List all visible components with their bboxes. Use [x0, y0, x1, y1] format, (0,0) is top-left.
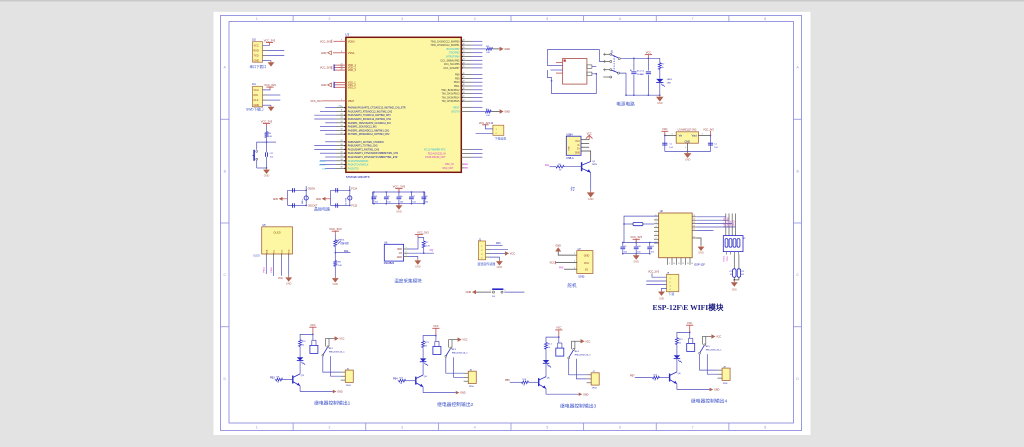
svg-text:RXD: RXD: [254, 49, 259, 52]
node reg in: [664, 135, 665, 136]
wire reset switch bottom: [256, 160, 258, 168]
connector J1 DHT11: [478, 241, 485, 260]
wire ds vdd: [404, 238, 418, 250]
svg-text:14: 14: [341, 121, 343, 123]
power flag VCC relay 2: [432, 325, 439, 335]
wire oled vcc: [281, 254, 283, 276]
svg-text:VCC_3V3: VCC_3V3: [264, 38, 276, 42]
svg-text:3: 3: [656, 222, 657, 224]
transistor Q5 NPN: [539, 377, 551, 389]
svg-text:J10: J10: [252, 39, 257, 42]
svg-text:6: 6: [656, 234, 657, 236]
wire relay left branch: [300, 334, 313, 339]
svg-text:GND: GND: [633, 260, 639, 263]
wire relay left branch: [546, 337, 559, 342]
svg-text:继电器控制输出2: 继电器控制输出2: [437, 401, 474, 408]
svg-text:1: 1: [574, 253, 575, 255]
node reg gnd: [687, 151, 688, 152]
svg-text:SWDIO: SWDIO: [319, 161, 326, 163]
svg-text:RG1: RG1: [340, 239, 345, 241]
svg-text:15: 15: [693, 219, 695, 221]
power port GND VSS: [321, 83, 332, 87]
svg-text:GND: GND: [396, 210, 402, 213]
wire reset cap top: [266, 142, 268, 152]
wire relay r to led: [299, 347, 301, 358]
svg-text:36: 36: [341, 167, 343, 169]
mcu right pins PC13-PC15 wires: [461, 150, 482, 158]
relay RL3 coil: [433, 347, 441, 355]
ground lamp: [587, 191, 595, 201]
mcu pin names PA0-PA7: [339, 105, 406, 137]
mcu U3 STM32F103C8T6 body: [346, 37, 461, 172]
power flag VCC relay 4: [686, 322, 693, 332]
node ds io: [423, 253, 424, 254]
esp right pin stubs: [692, 215, 696, 238]
svg-text:GND: GND: [264, 175, 270, 178]
wire relay r to led: [676, 345, 678, 356]
capacitors C9 C10 C11: [620, 242, 658, 255]
wire relay left branch: [677, 332, 690, 337]
svg-text:3: 3: [574, 267, 575, 269]
svg-text:PB8: PB8: [455, 75, 460, 77]
svg-text:51: 51: [463, 96, 465, 98]
wire esp rxd: [696, 219, 729, 221]
node rail5: [625, 95, 626, 96]
ground reset: [263, 168, 270, 178]
ground dht: [496, 260, 503, 270]
usb power connector body: [563, 59, 587, 85]
node reg out: [710, 135, 711, 136]
wire J10 VCC: [263, 44, 270, 46]
ground relay 1: [333, 390, 343, 394]
power port VCC_3V3 VDDA: [320, 40, 332, 44]
wire contact to connector: [700, 354, 718, 370]
svg-text:LED: LED: [667, 82, 672, 84]
svg-text:GND: GND: [555, 244, 561, 247]
wire relay coil stem: [558, 337, 560, 343]
power vcc relay contact: [335, 336, 345, 340]
power flag VCC_3V3 capbank: [393, 184, 406, 192]
svg-text:灯: 灯: [571, 186, 576, 193]
svg-text:49: 49: [463, 88, 465, 90]
svg-text:VCC: VCC: [646, 51, 651, 54]
wire esp en: [646, 223, 655, 225]
relay contacts: [445, 340, 458, 358]
mcu left signal pins PA0-PA7 wires: [314, 106, 346, 135]
svg-text:PA15/JTDI: PA15/JTDI: [348, 167, 359, 170]
pins ds numbers: [406, 247, 407, 257]
wire servo io: [564, 268, 577, 270]
svg-text:SG90: SG90: [578, 276, 585, 278]
pin OSC_IN wire: [461, 163, 468, 165]
svg-text:PC15: PC15: [351, 206, 357, 208]
svg-text:PB10: PB10: [454, 82, 460, 84]
svg-text:PA14/JTCK/SWCLK: PA14/JTCK/SWCLK: [348, 164, 369, 167]
wire esp io0: [696, 223, 732, 225]
svg-text:7: 7: [692, 426, 694, 430]
svg-text:11: 11: [341, 110, 343, 112]
svg-text:VCC: VCC: [556, 327, 561, 330]
svg-text:46: 46: [463, 77, 465, 79]
svg-text:VCC_3V3: VCC_3V3: [320, 67, 332, 70]
wire J10 RXD: [263, 49, 285, 51]
svg-text:35: 35: [341, 163, 343, 165]
wire usb loop top: [547, 50, 604, 66]
wire power top rail: [620, 57, 660, 59]
svg-text:1: 1: [685, 147, 686, 149]
svg-text:TXD2: TXD2: [727, 256, 729, 262]
node relay vcc: [689, 332, 690, 333]
row dividers and letters: [221, 66, 802, 381]
svg-text:GND: GND: [685, 140, 691, 143]
svg-text:19: 19: [463, 43, 465, 45]
wire j1 pin3: [486, 252, 505, 254]
svg-text:10K: 10K: [338, 265, 342, 267]
mcu left signal pins PA8-PA15 wires: [314, 140, 346, 169]
wire emitter down: [422, 387, 424, 393]
power port GND VSSA: [321, 51, 332, 55]
pins servo numbers: [574, 253, 575, 269]
led D2: [420, 358, 427, 361]
svg-text:2: 2: [406, 251, 407, 253]
pins VDD names: [348, 64, 357, 72]
svg-text:NPN: NPN: [592, 164, 597, 166]
node rail1: [633, 58, 634, 59]
svg-text:PA4: PA4: [344, 250, 349, 253]
svg-text:HRD-05VDC-SL-C: HRD-05VDC-SL-C: [575, 354, 591, 356]
wire ds vcc rail: [418, 238, 424, 241]
svg-text:PC15-OSC32_OUT: PC15-OSC32_OUT: [425, 157, 446, 159]
svg-text:PA8/USART1_CK/TIM1_CH1/MCO: PA8/USART1_CK/TIM1_CH1/MCO: [348, 141, 384, 144]
svg-text:16: 16: [693, 215, 695, 217]
svg-text:PA9/USART1_TX/TIM1_CH2: PA9/USART1_TX/TIM1_CH2: [348, 145, 379, 148]
wire contact2 to connector: [454, 357, 464, 377]
svg-text:29: 29: [341, 140, 343, 142]
svg-text:47: 47: [463, 80, 465, 82]
wire relay coil stub1: [557, 343, 559, 348]
resistor R12 1k: [299, 340, 307, 347]
svg-text:晶振电路: 晶振电路: [314, 206, 330, 212]
svg-text:NRST: NRST: [453, 107, 460, 109]
wire servo vcc: [556, 262, 577, 264]
svg-text:VCC_3V3: VCC_3V3: [417, 230, 429, 234]
svg-text:9: 9: [669, 263, 670, 265]
svg-text:VCC_3V3: VCC_3V3: [703, 129, 714, 132]
svg-text:VCC: VCC: [587, 133, 592, 135]
svg-text:4: 4: [670, 289, 671, 291]
svg-text:PA3: PA3: [496, 242, 501, 245]
inductor FB1: [624, 222, 646, 225]
wire esp io2: [696, 226, 735, 228]
svg-text:下载设置: 下载设置: [495, 136, 507, 141]
svg-text:GND: GND: [583, 393, 589, 396]
wire emitter down: [299, 386, 301, 392]
svg-text:20: 20: [463, 47, 465, 49]
pins VDD_1 VDD_2 VDD_3 wires: [334, 64, 346, 70]
sheet page: [214, 12, 811, 435]
svg-text:TIM1_BKIN/PB12: TIM1_BKIN/PB12: [441, 90, 460, 92]
usb left pin 1: [556, 62, 563, 64]
svg-text:5: 5: [546, 426, 548, 430]
svg-text:SDA: SDA: [265, 249, 268, 254]
svg-text:8: 8: [341, 51, 342, 53]
wire button left: [476, 291, 491, 293]
wire relay coil stub1: [434, 341, 436, 346]
svg-text:继电器控制输出3: 继电器控制输出3: [560, 402, 597, 409]
switch S1 power switch: [603, 52, 620, 78]
svg-text:OLED: OLED: [253, 255, 260, 258]
pins VSS_1 VSS_2 VSS_3 wires: [334, 82, 346, 88]
resistor R14 1k: [545, 342, 553, 349]
node reset bottom: [266, 167, 267, 168]
svg-text:12: 12: [682, 263, 684, 265]
wire relay coil stem: [689, 332, 691, 338]
ground capbank: [396, 204, 403, 214]
connector USB4 body: [566, 136, 581, 155]
svg-text:GPIO0: GPIO0: [731, 219, 733, 226]
svg-text:BOOT1/PB2: BOOT1/PB2: [447, 49, 460, 51]
svg-text:4.7K: 4.7K: [426, 245, 431, 247]
wire relay coil stem: [312, 334, 314, 340]
wire photo bottom: [334, 266, 336, 276]
svg-text:ESP-12F: ESP-12F: [694, 263, 705, 267]
wire J11 VCC: [263, 89, 271, 91]
svg-text:SWD下载口: SWD下载口: [246, 107, 264, 112]
power flag VCC_3V3 J10: [264, 38, 276, 45]
wire ds io: [404, 252, 434, 254]
power port VCC_3V3 VDD: [320, 66, 332, 70]
usb right pin pads: [587, 65, 592, 76]
svg-text:PA12/USART1_RTS/CANTX/USBDP/TI: PA12/USART1_RTS/CANTX/USBDP/TIM1_ETR: [348, 156, 398, 159]
svg-text:11: 11: [678, 263, 680, 265]
svg-text:I2C1_SCL/PB6: I2C1_SCL/PB6: [444, 64, 460, 66]
node reset: [266, 141, 267, 142]
svg-text:GND: GND: [333, 283, 339, 286]
relay contacts: [568, 341, 581, 359]
node power gnd: [659, 95, 660, 96]
mcu pin names PB0-PB7: [430, 40, 460, 70]
power flag VCC relay 3: [555, 327, 562, 337]
transistor Q4 NPN: [416, 375, 428, 387]
svg-text:12: 12: [693, 229, 695, 231]
svg-text:GND: GND: [504, 111, 510, 114]
wire led to collector: [676, 359, 678, 372]
resistor R3 10K: [486, 46, 493, 54]
ground power circuit: [656, 95, 663, 105]
svg-text:OSC_IN: OSC_IN: [445, 164, 454, 166]
ground photo: [332, 277, 339, 287]
svg-text:GND: GND: [657, 102, 663, 105]
svg-text:GND: GND: [337, 391, 343, 394]
svg-text:OSC_OUT: OSC_OUT: [442, 168, 454, 170]
relay contacts: [322, 339, 335, 357]
wire dip join: [734, 277, 739, 280]
pin BOOT0 wire: [461, 111, 485, 113]
wire usb4 gnd: [581, 151, 591, 162]
svg-text:TIM3_CH4/ADC12_IN9/PB1: TIM3_CH4/ADC12_IN9/PB1: [430, 44, 460, 47]
svg-text:GND: GND: [575, 153, 580, 155]
led D4: [674, 355, 681, 358]
node photo: [335, 252, 336, 253]
svg-text:PA13/JTMS/SWDIO: PA13/JTMS/SWDIO: [348, 160, 369, 163]
wire J11 CLK: [263, 99, 281, 101]
ground right of R4: [500, 109, 511, 113]
wire reset branch left: [257, 142, 267, 150]
svg-text:2: 2: [702, 133, 703, 135]
svg-text:1: 1: [406, 255, 407, 257]
relay RL2 coil: [310, 345, 318, 353]
wire J10 GND: [263, 60, 272, 62]
svg-text:PA0/WKUP/USART2_CTS/ADC12_IN0/: PA0/WKUP/USART2_CTS/ADC12_IN0/TIM2_CH1_E…: [348, 107, 406, 110]
svg-text:8: 8: [764, 17, 766, 21]
power flag VCC regulator: [661, 128, 668, 135]
svg-text:2: 2: [670, 282, 671, 284]
resistor R1 1K lamp: [556, 164, 564, 171]
svg-text:PA2/USART2_TX/ADC12_IN2/TIM2_C: PA2/USART2_TX/ADC12_IN2/TIM2_CH3: [348, 114, 391, 117]
svg-text:13: 13: [687, 263, 689, 265]
wire relay coil top: [558, 342, 562, 344]
led LED1: [656, 79, 673, 87]
display U5 OLED body: [262, 227, 293, 255]
svg-text:1: 1: [670, 278, 671, 280]
svg-text:VCC: VCC: [310, 324, 315, 327]
power flag VCC relay 1: [309, 324, 316, 334]
ground relay 4: [710, 388, 720, 392]
connector J9 esp download: [667, 274, 679, 291]
svg-text:VSS_3: VSS_3: [348, 87, 356, 90]
wire usb4 dp: [581, 146, 589, 148]
wire ds r7 down: [423, 248, 425, 254]
power flag VCC_3V3 esp: [630, 235, 642, 242]
svg-text:VCC: VCC: [510, 253, 515, 256]
svg-text:3: 3: [670, 285, 671, 287]
svg-text:PB9: PB9: [455, 78, 460, 80]
wire reg out: [698, 134, 710, 136]
svg-text:VCC_3V3: VCC_3V3: [630, 235, 642, 239]
svg-text:9: 9: [341, 40, 342, 42]
svg-text:Vin: Vin: [679, 135, 683, 138]
connector J8 output: [718, 368, 731, 380]
svg-text:2: 2: [574, 261, 575, 263]
node relay vcc: [435, 335, 436, 336]
svg-text:3: 3: [406, 247, 407, 249]
wire oled sda: [265, 254, 267, 274]
svg-text:52: 52: [463, 99, 465, 101]
wire C3 bottom: [647, 75, 649, 95]
svg-text:5: 5: [656, 230, 657, 232]
svg-text:VCC_3V3: VCC_3V3: [264, 83, 276, 87]
svg-text:25: 25: [463, 66, 465, 68]
mcu pin names PB8-PB15: [441, 75, 460, 104]
wire emitter down: [545, 389, 547, 395]
wire servo gnd: [558, 252, 577, 256]
svg-text:VCC: VCC: [278, 277, 283, 280]
crystal circuit Y2 32.768K: [316, 186, 358, 208]
svg-text:JTDI: JTDI: [322, 168, 327, 170]
svg-text:TIM_CH2N/PB14: TIM_CH2N/PB14: [442, 97, 460, 99]
svg-text:50: 50: [463, 92, 465, 94]
svg-text:PA3/USART2_RX/ADC12_IN3/TIM2_C: PA3/USART2_RX/ADC12_IN3/TIM2_CH4: [348, 118, 392, 121]
wire J10 TXD: [263, 55, 285, 57]
svg-text:下载: 下载: [668, 291, 674, 296]
wire J11 GND: [263, 104, 272, 106]
svg-text:VCC: VCC: [716, 336, 721, 339]
svg-text:1: 1: [256, 426, 258, 430]
regulator U1 body: [676, 132, 698, 144]
svg-text:GND: GND: [397, 256, 403, 259]
relay RL4 coil: [556, 348, 564, 356]
node relay vcc: [558, 336, 559, 337]
svg-text:16: 16: [341, 129, 343, 131]
transistor Q3 NPN: [293, 374, 305, 386]
wire photo tap: [335, 252, 350, 254]
wire contact2 to connector: [331, 356, 341, 376]
svg-text:GND: GND: [698, 252, 704, 255]
wire input to base: [529, 381, 539, 383]
resistor R17 1k input: [399, 378, 406, 385]
svg-text:17: 17: [341, 132, 343, 134]
esp U2 body: [659, 213, 693, 258]
svg-text:I/O: I/O: [585, 268, 588, 271]
svg-text:PA6/SPI1_MISO/ADC12_IN6/TIM3_C: PA6/SPI1_MISO/ADC12_IN6/TIM3_CH1: [348, 129, 390, 132]
svg-text:HRD-05VDC-SL-C: HRD-05VDC-SL-C: [706, 350, 722, 352]
pin NRST wire: [461, 106, 482, 108]
transistor Q1 NPN: [582, 161, 598, 173]
pins VDD numbers: [341, 63, 343, 70]
svg-text:GPIO2: GPIO2: [734, 219, 736, 226]
resistor R16 1k input: [653, 375, 660, 382]
column dividers and numbers: [256, 16, 766, 431]
svg-text:U3: U3: [345, 33, 349, 37]
svg-text:18: 18: [463, 40, 465, 42]
crystal circuit Y1 8MHz: [273, 186, 318, 208]
top edge line: [0, 0, 1024, 2]
svg-text:PA10/USART1_RX/TIM1_CH3: PA10/USART1_RX/TIM1_CH3: [348, 148, 380, 151]
svg-text:USB-A: USB-A: [566, 157, 574, 160]
wire relay left branch: [423, 336, 436, 341]
wire R3 to gnd: [493, 48, 500, 50]
svg-text:ESP-12F\E WIFI模块: ESP-12F\E WIFI模块: [653, 302, 724, 312]
wire contact to connector: [323, 356, 341, 372]
svg-text:VCC: VCC: [550, 262, 555, 265]
servo U7 body: [577, 251, 593, 274]
svg-text:3: 3: [401, 17, 403, 21]
svg-text:GND: GND: [685, 159, 691, 162]
svg-text:VCC: VCC: [339, 338, 344, 341]
svg-text:2: 2: [328, 426, 330, 430]
svg-text:13: 13: [693, 225, 695, 227]
node dip gnd: [734, 279, 735, 280]
power flag VCC_3V3 reset: [261, 119, 273, 126]
esp breakout wires and net labels: [724, 214, 736, 236]
svg-text:TIM_CH1N/PB13: TIM_CH1N/PB13: [442, 94, 460, 96]
svg-text:5: 5: [546, 17, 548, 21]
svg-text:3: 3: [401, 426, 403, 430]
power flag VCC lamp: [586, 133, 593, 139]
relay RL5 coil: [687, 343, 695, 351]
svg-text:1: 1: [256, 17, 258, 21]
wire esp antenna: [624, 216, 659, 242]
wire contact to connector: [446, 357, 464, 373]
resistor R7 4.7K ds: [422, 241, 430, 248]
svg-text:45: 45: [463, 73, 465, 75]
svg-text:GND: GND: [286, 282, 292, 285]
svg-text:4: 4: [474, 17, 476, 21]
wire j9 pin2: [646, 280, 666, 282]
switch S3 key: [490, 289, 506, 298]
wire relay r to led: [422, 348, 424, 359]
svg-text:4: 4: [656, 226, 657, 228]
